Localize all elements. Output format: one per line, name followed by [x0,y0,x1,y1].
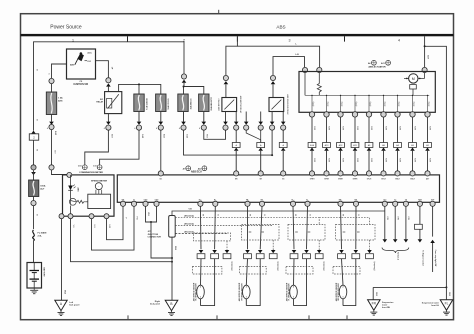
svg-text:R-W: R-W [356,126,358,130]
svg-text:R-W: R-W [429,158,431,162]
ground right kick panel [165,300,178,311]
meter bottom pins [59,214,64,219]
svg-text:FR: FR [372,301,377,305]
svg-text:-: - [98,184,99,188]
svg-text:4: 4 [179,127,180,130]
svg-text:FR SPEED SENSOR: FR SPEED SENSOR [242,283,244,301]
wire meter pin4 to ECU [107,206,124,239]
connector row below fuses [106,122,111,125]
wire meter pin3 to ECU [92,206,135,250]
svg-text:(Shielded): (Shielded) [231,261,233,270]
svg-text:tower: tower [382,303,388,306]
svg-text:FL-: FL- [306,199,309,201]
wire node A1 to fuse ALT [31,172,36,175]
fuse GAUGE [156,94,166,112]
svg-text:B-R: B-R [427,55,429,59]
connector node A1 [31,165,36,170]
wire bus1 drop2 connector [181,74,186,79]
wire relay feed to fuses [119,84,161,94]
svg-text:SPEEDOMETER: SPEEDOMETER [91,180,107,182]
connector arrow bus1 left [31,131,36,134]
svg-text:G-W: G-W [108,224,110,228]
ground below battery [33,288,35,290]
wire TC TS CA1 group [384,206,386,239]
svg-text:2: 2 [200,287,201,289]
wire AM1 fuse down [51,130,53,165]
svg-text:2: 2 [343,287,344,289]
svg-text:SFRR: SFRR [324,178,329,180]
ground suspension LH [440,300,453,311]
svg-text:front LH: front LH [431,304,439,307]
fuse ABS1 [178,94,188,112]
svg-text:Left: Left [69,301,73,304]
wire bus3 section drop [226,36,238,75]
svg-text:3: 3 [289,38,291,42]
svg-text:2: 2 [246,287,247,289]
svg-text:CA1: CA1 [383,198,386,201]
svg-text:TSW: TSW [418,199,422,201]
ground left kick panel [55,300,67,311]
ecu top pins [158,171,163,176]
meter lamp ground [70,206,72,217]
svg-text:R-W: R-W [313,126,315,130]
wire diagonal relay link [246,130,261,139]
wire AM1 to ignition switch [52,64,67,78]
svg-text:ABS MOTOR RELAY: ABS MOTOR RELAY [239,96,242,114]
svg-text:10A ABS-IG: 10A ABS-IG [190,98,193,110]
svg-text:(SOL): (SOL) [313,101,315,106]
relay bottom stubs [225,112,227,123]
svg-text:R-W: R-W [342,126,344,130]
svg-text:RL-: RL- [214,199,217,201]
wire branch fuse ABS2 [184,87,204,95]
svg-text:RL+: RL+ [199,199,202,201]
svg-text:R-W: R-W [414,158,416,162]
junction connector J1 [169,216,176,238]
jc shield line 3 [175,233,227,235]
svg-text:2.0L: 2.0L [38,235,43,237]
wire ECU gnd pins [146,206,157,222]
wire branch to ECU-IG fuse [138,84,140,94]
svg-text:G-B: G-B [186,134,188,138]
svg-text:kick panel: kick panel [150,304,160,306]
svg-text:COMBINATION METER: COMBINATION METER [79,171,103,174]
svg-text:B: B [170,302,172,306]
svg-text:4: 4 [134,127,135,130]
ground suspension RH [368,300,381,311]
svg-text:W-B: W-B [174,246,176,251]
svg-text:Y-B: Y-B [188,209,192,211]
svg-text:R-W: R-W [370,158,372,162]
arrow into IG1 relay [106,83,111,86]
wire SOL1 to ECU [260,140,262,143]
wire ABS2 fuse to MTR relay [204,130,226,139]
svg-text:Power Source: Power Source [50,25,82,31]
svg-text:R-W: R-W [328,126,330,130]
actuator motor M1 [424,73,426,79]
svg-text:R-W: R-W [356,158,358,162]
svg-text:(SOL): (SOL) [399,101,401,106]
frame top tick [218,10,220,14]
svg-text:Suspension tower: Suspension tower [422,302,439,305]
wire bus LB [273,57,305,76]
relay ABS SOL [269,98,284,112]
fuse ABS2 [199,94,209,112]
relay ABS MTR [222,98,237,112]
svg-text:(Shielded): (Shielded) [184,231,194,233]
wire fuse AM1 top [51,84,53,92]
wire TSW [419,206,421,224]
svg-text:RR-: RR- [355,199,358,201]
svg-text:SRLH: SRLH [395,178,400,180]
actuator solenoid stubs [311,95,313,112]
connector above fuse AM1 [49,78,54,83]
meter top pin [67,172,72,177]
svg-text:RL SPEED SENSOR: RL SPEED SENSOR [196,283,198,301]
svg-text:4: 4 [47,127,48,130]
wire BR ground trunk [425,46,447,287]
fuse 100A ALT [29,180,39,197]
svg-text:(SOL): (SOL) [328,101,330,106]
svg-text:R-W: R-W [313,158,315,162]
svg-text:2: 2 [293,287,294,289]
svg-text:4: 4 [156,127,157,130]
wire relay out to meter C10 [85,130,109,164]
wire suspension ground run [373,286,446,288]
svg-text:kick panel: kick panel [69,305,79,307]
fuse ECU-IG [134,94,144,112]
svg-text:front RH: front RH [382,306,391,309]
svg-text:RR SPEED SENSOR: RR SPEED SENSOR [338,283,340,301]
svg-text:W: W [342,214,344,216]
svg-text:1: 1 [246,297,247,299]
jc top wire [172,211,385,216]
wire meter gnd left [61,219,63,301]
svg-text:100A: 100A [40,185,46,188]
svg-text:4: 4 [398,38,400,42]
svg-text:IG1: IG1 [159,178,162,180]
svg-text:(SOL): (SOL) [370,101,372,106]
svg-text:20A ABS-MTR: 20A ABS-MTR [210,97,213,111]
meter resistor R2 [76,200,85,203]
svg-text:(Shielded): (Shielded) [374,261,376,270]
transistor Q1 [69,198,76,205]
connector IG1 out [106,78,111,83]
svg-text:10A ECU-IG: 10A ECU-IG [167,98,170,110]
connector below ALT [31,201,36,206]
svg-text:(Shielded): (Shielded) [278,261,280,270]
wire to FL MAIN [33,197,35,201]
svg-text:RR+: RR+ [339,199,342,201]
svg-text:ABS: ABS [276,25,285,30]
svg-text:R-W: R-W [328,158,330,162]
actuator top connectors [302,67,307,72]
svg-text:FL MAIN: FL MAIN [38,232,47,235]
svg-text:V-W: V-W [396,216,398,220]
wire relay output down [107,114,109,123]
wire SOL out to ABS1 horiz [271,130,273,155]
wire STP from stop light [430,240,435,243]
battery [27,263,42,289]
svg-text:W: W [202,214,204,216]
svg-text:FR+: FR+ [246,199,249,201]
wire fuse AM1 bottom [51,115,53,122]
wire MTR relay to ECU [235,130,237,142]
abs warning lamp LED [70,175,72,186]
svg-text:ABS ACTUATOR: ABS ACTUATOR [368,65,386,68]
svg-text:1: 1 [343,297,344,299]
actuator to ECU wires [311,117,313,142]
op ECU U2 box [117,175,439,202]
abs actuator U1 [299,72,435,113]
actuator inner feed [304,73,306,96]
svg-text:V-W: V-W [407,216,409,220]
svg-text:B-W: B-W [54,131,56,135]
svg-text:4: 4 [104,127,105,130]
svg-text:R-W: R-W [399,158,401,162]
sensor groups [199,206,202,249]
svg-text:IGNITION SW: IGNITION SW [74,84,89,86]
fuse AM1 5A [46,92,56,115]
svg-text:(SOL): (SOL) [342,101,344,106]
svg-text:(Shielded): (Shielded) [324,261,326,270]
svg-text:FL+: FL+ [291,199,294,201]
wire meter pin2 to gnd bus [71,219,173,262]
svg-text:FL: FL [445,301,449,305]
svg-text:(SOL): (SOL) [385,101,387,106]
frame bottom ticks [127,315,129,319]
svg-text:ABS SOLENOID RELAY: ABS SOLENOID RELAY [286,94,289,115]
fusible link FL MAIN [33,230,35,241]
wire MTR relay to ECU lower [235,151,237,171]
relay IG1 [105,92,122,114]
wire to node A1 [33,140,35,164]
wire to battery [33,244,35,263]
wire AM1 to meter pin [52,170,70,175]
svg-text:B-O: B-O [163,134,165,138]
svg-text:G-W: G-W [141,134,143,138]
ignition switch SW1 [67,49,96,79]
svg-text:RELAY: RELAY [96,101,103,104]
svg-text:ABS ECU: ABS ECU [191,171,202,174]
svg-text:R-W: R-W [399,126,401,130]
wire SOL2 to ECU [282,130,284,142]
svg-text:W: W [36,149,38,151]
svg-text:1 5A: 1 5A [58,97,63,100]
connector node AM1 low [49,165,54,170]
wire section4 feed [424,36,426,67]
connector SOL relay top [270,75,275,80]
jc shield line 1 [175,218,319,225]
wire IG1 output [96,61,109,78]
svg-text:W-B: W-B [448,292,450,296]
svg-text:ALT: ALT [40,187,45,190]
svg-text:SRRR: SRRR [353,178,359,180]
svg-text:M: M [412,77,415,81]
connector box 2C [29,134,38,140]
wire bus1 from rail [34,42,128,131]
svg-text:R-W: R-W [342,158,344,162]
svg-text:(SOL): (SOL) [356,101,358,106]
svg-text:From stop light SW: From stop light SW [434,250,437,267]
svg-text:SFRH: SFRH [310,178,315,180]
svg-text:R-W: R-W [385,126,387,130]
svg-text:(Shielded): (Shielded) [184,216,194,218]
svg-text:BATTERY: BATTERY [42,267,45,277]
svg-text:R-W: R-W [370,126,372,130]
wire GAUGE fuse to ECU pin [160,130,162,170]
jc shield line 2 [175,224,273,226]
svg-text:ACC: ACC [87,52,92,55]
svg-text:L-B: L-B [295,54,299,56]
svg-text:AM1: AM1 [58,100,63,103]
svg-text:FL SPEED SENSOR: FL SPEED SENSOR [289,283,291,301]
svg-text:1: 1 [293,297,294,299]
wire ECU-IG fuse to meter C11 [100,130,139,164]
svg-text:SRLR: SRLR [410,178,415,180]
svg-text:G-O: G-O [93,224,95,228]
fuse bottom stubs [138,112,140,122]
svg-text:4: 4 [199,127,200,130]
connector below fuse AM1 [49,122,54,125]
svg-text:R-W: R-W [385,158,387,162]
svg-text:W-B: W-B [375,292,377,296]
svg-text:(SOL): (SOL) [429,101,431,106]
actuator resistor R1 [318,73,320,84]
svg-text:FR-: FR- [261,199,264,201]
svg-text:SRRH: SRRH [338,178,344,180]
power rail bar [21,34,454,36]
svg-text:R-W: R-W [429,126,431,130]
svg-text:Right: Right [155,300,161,303]
ecu bottom pins [120,201,125,206]
svg-text:To Engine Control: To Engine Control [421,250,424,266]
svg-text:W: W [294,214,296,216]
svg-text:W: W [249,214,251,216]
svg-text:J/C: J/C [148,231,152,233]
wire ABS1 fuse routing [184,130,273,155]
brace DLC [382,248,409,254]
actuator bottom pins [309,112,314,117]
svg-text:CONNECTOR: CONNECTOR [148,237,162,239]
svg-text:ABS MTR RLY: ABS MTR RLY [218,98,221,111]
svg-text:R-W: R-W [414,126,416,130]
svg-text:W-B: W-B [64,290,66,295]
svg-text:(SOL): (SOL) [414,101,416,106]
svg-text:7.5A GAUGE: 7.5A GAUGE [146,97,149,110]
svg-text:JUNCTION: JUNCTION [148,234,159,236]
svg-text:(Shielded): (Shielded) [184,223,194,225]
svg-text:V-W: V-W [386,216,388,220]
svg-text:1: 1 [200,297,201,299]
jc bottom ground wire [171,237,173,300]
actuator inner bus [305,94,429,96]
svg-text:To DLC 3: To DLC 3 [396,252,398,260]
bar ticks [127,36,129,41]
connector MTR relay top [223,75,228,80]
